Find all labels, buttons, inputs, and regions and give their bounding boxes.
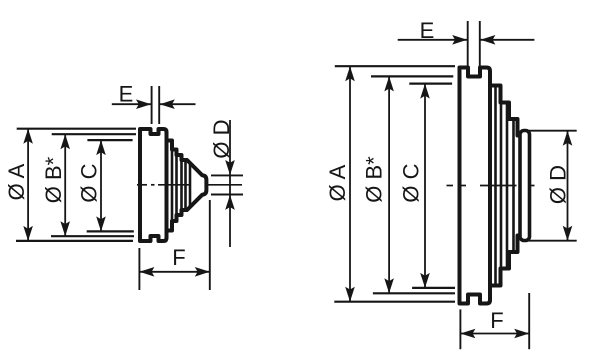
dimension A (right): extension lines [335,65,455,67]
svg-text:Ø A: Ø A [4,163,29,200]
dimension C (left): extension lines [87,139,132,141]
dimension F (left): extension lines [138,248,140,290]
svg-text:F: F [172,245,185,270]
centerline (left figure) [137,184,242,186]
svg-text:Ø C: Ø C [399,163,424,202]
dimension E (right): dimension lines with arrows [398,39,468,41]
body step separator line 1 [171,142,174,229]
dimension E (left): dimension lines with arrows [112,103,151,105]
disc separator line 3 [506,103,509,269]
svg-text:E: E [420,18,435,43]
flange (right plug) [460,68,491,304]
dimension D (right): dimension line [567,131,569,241]
dimension B (right): dimension line [388,76,390,293]
svg-text:Ø B*: Ø B* [362,156,387,203]
dimension A (left): dimension line [27,129,29,241]
body step separator line 3 [180,156,183,215]
body step separator line 5 [189,164,192,206]
stepped body silhouette (right plug) [490,86,521,286]
body step separator line 2 [175,150,178,220]
stepped cone silhouette (top and bottom staircase + tip) [167,141,207,231]
svg-text:Ø D: Ø D [209,119,234,158]
dimension A (right): dimension line [349,66,351,302]
face lip (right plug, ØD face) [520,131,530,241]
svg-text:E: E [119,82,134,107]
dimension C (right): extension lines [409,82,452,84]
svg-text:Ø C: Ø C [77,163,102,202]
dimension C (left): dimension line [100,140,102,231]
flange (left plug) [140,129,167,241]
dimension B (left): dimension line [64,134,66,236]
dimension D (left): extension lines [211,174,243,176]
dimension D (left): dimension line with arrows [229,120,231,175]
dimension B (right): extension lines [371,75,453,77]
dimension F (right): dimension line [460,333,529,335]
dimension B (left): extension lines [52,133,136,135]
disc separator line 1 [494,86,497,286]
disc separator line 4 [512,119,515,252]
dimension E (right): extension lines [467,21,469,66]
centerline (right figure) [447,185,535,187]
dimension C (right): dimension line [424,84,426,288]
svg-text:Ø D: Ø D [546,165,571,204]
disc separator line 2 [500,103,503,269]
svg-text:Ø A: Ø A [325,164,350,201]
dimension A (left): extension lines [17,128,136,130]
body step separator line 4 [184,161,187,210]
dimension F (left): dimension line [139,271,209,273]
svg-text:Ø B*: Ø B* [41,156,66,203]
dimension D (right): extension lines [528,130,577,132]
svg-text:F: F [490,308,503,333]
dimension E (left): extension lines [151,86,153,124]
dimension F (right): extension lines [459,309,461,349]
